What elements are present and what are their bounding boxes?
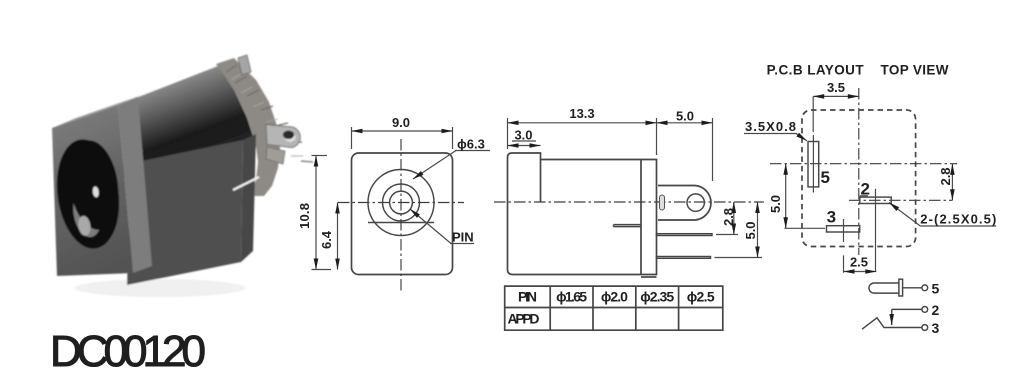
side body outline [508,153,657,275]
step notch light patch [111,147,143,185]
spring contact zigzag [862,318,922,329]
svg-text:3: 3 [932,320,940,336]
middle circle (6.3 dia) [383,184,420,221]
switch arm arrow [891,309,893,325]
vertical centerline [400,139,402,291]
svg-text:5: 5 [932,281,940,297]
dim 2.8 right [951,164,953,200]
flange top face [52,95,142,128]
dim 3.5 [812,96,814,132]
svg-text:PIN: PIN [452,230,474,245]
horizontal centerline [338,202,464,204]
FRONT VIEW [297,115,490,291]
chord line [368,222,434,224]
label PIN leader [410,209,451,244]
slot pad 5 [808,142,819,187]
PIN TABLE [505,286,723,330]
svg-text:2.5: 2.5 [850,255,868,270]
tab slot oval [660,195,665,210]
flange right face [118,97,152,273]
svg-text:10.8: 10.8 [297,203,312,229]
PHOTO [50,55,313,297]
pin 5 lead [903,287,922,289]
svg-text:5: 5 [821,168,830,187]
ground shadow [75,279,245,297]
dim 5.0 top [712,118,714,181]
dim 2.8 right [716,234,738,236]
dim 9.0 [351,127,353,149]
tab hole [687,194,704,211]
table grid [505,286,723,330]
svg-text:ϕ2.0: ϕ2.0 [601,289,628,305]
svg-text:3: 3 [827,208,836,227]
vertical centerline [858,88,860,255]
dim 3.0 [508,145,541,147]
svg-text:ϕ2.35: ϕ2.35 [640,289,674,305]
pad 2 row line [849,199,952,201]
SIDE VIEW [494,106,764,277]
svg-text:2-(2.5X0.5): 2-(2.5X0.5) [920,212,996,227]
center pin circle [390,191,413,214]
barrel cylinder [133,66,256,164]
svg-text:PIN: PIN [518,289,537,305]
pin 5 terminal [922,285,928,291]
side solder lug [266,125,300,148]
sleeve bar [899,279,903,296]
svg-text:ϕ6.3: ϕ6.3 [457,137,485,152]
SCHEMATIC SYMBOL [862,279,940,336]
mounting tab [658,186,711,221]
label dia 6.3 leader [413,151,456,180]
svg-text:3.5: 3.5 [827,80,845,95]
dim 10.8 [312,155,328,157]
svg-text:ϕ2.5: ϕ2.5 [687,289,715,305]
bottom notch [641,276,657,278]
svg-text:ϕ1.65: ϕ1.65 [556,289,587,305]
highlight dash on housing [233,177,259,190]
housing block right face [241,134,256,262]
pin 2 lead [892,308,922,310]
svg-text:13.3: 13.3 [569,106,594,121]
lower solder pin stub [266,147,285,164]
PCB LAYOUT / TOP VIEW [744,63,996,273]
svg-text:9.0: 9.0 [392,115,410,130]
horizontal centerline [494,201,764,203]
front view body outline [352,153,453,275]
pad 2 [860,197,891,203]
svg-text:6.4: 6.4 [319,230,334,249]
svg-text:DC00120: DC00120 [50,327,206,376]
svg-text:5.0: 5.0 [676,109,694,124]
horizontal centerline [770,163,957,165]
svg-text:5.0: 5.0 [743,221,758,239]
dim 6.4 [337,203,339,270]
pin 3 terminal [922,325,928,331]
barrel symbol [869,283,899,293]
dashed outline rect [802,110,916,247]
svg-text:2.8: 2.8 [721,208,736,226]
dim 2.5 bottom [844,271,877,273]
knurled back ring [216,58,280,196]
svg-text:P.C.B LAYOUT: P.C.B LAYOUT [767,63,865,78]
svg-text:APPD: APPD [508,311,540,327]
pad 3 [827,226,860,232]
svg-text:5.0: 5.0 [768,195,783,213]
inner pin [614,225,642,227]
pin B bottom [657,257,711,259]
label 2-(2.5X0.5) [920,225,996,227]
svg-text:TOP VIEW: TOP VIEW [881,63,949,78]
top solder pin [238,55,251,75]
barrel hole [50,135,126,252]
svg-text:3.5X0.8: 3.5X0.8 [745,119,796,134]
dim 5.0 left [785,164,787,229]
pin A middle [657,234,713,236]
svg-text:2.8: 2.8 [938,167,953,185]
svg-text:2: 2 [932,302,940,318]
flange front face [52,105,133,276]
dim 13.3 [507,118,509,149]
svg-text:3.0: 3.0 [514,128,532,143]
housing block front face [127,140,243,285]
outer circle [368,170,434,236]
dim 5.0 right [715,257,763,259]
pin 2 terminal [922,307,928,313]
